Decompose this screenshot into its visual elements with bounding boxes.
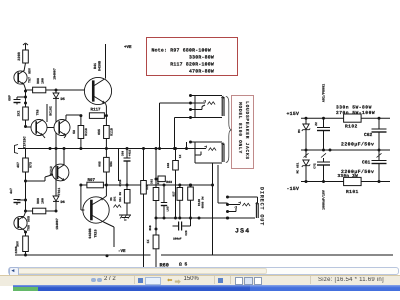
wire R91 to node	[25, 120, 27, 127]
svg-text:R117 820R-100W: R117 820R-100W	[170, 62, 214, 68]
wire jack JS3 sleeve down	[212, 163, 214, 255]
svg-text:MC: MC	[298, 129, 301, 133]
svg-text:1N4007: 1N4007	[53, 68, 57, 80]
toolbar dropdown icon	[138, 278, 143, 283]
svg-text:100uF: 100uF	[173, 238, 182, 241]
resistor R? 1K mid	[173, 161, 179, 171]
node dots R97 row	[79, 184, 82, 187]
svg-text:330n 5W-80W: 330n 5W-80W	[336, 105, 372, 111]
rail +15V	[301, 117, 344, 119]
node dot bus tap	[155, 178, 158, 181]
resistor R119	[105, 116, 107, 126]
svg-text:270n 5W-100W: 270n 5W-100W	[336, 110, 375, 116]
wire x=175.5 upper	[175, 149, 177, 161]
jack bus dots column	[189, 94, 192, 97]
wire into TR8 top	[46, 104, 48, 122]
wire R117 stubs	[104, 115, 106, 117]
wire TR10 base from node	[80, 185, 82, 210]
svg-text:2200µF/50v: 2200µF/50v	[341, 142, 374, 148]
rail -15V	[301, 181, 344, 183]
wire TR8/TR12 emitters joined	[43, 136, 45, 139]
svg-text:R102: R102	[345, 124, 358, 130]
wire x=218 vertical	[217, 165, 219, 203]
svg-text:95V: 95V	[28, 68, 32, 74]
wire +rail stub to R96	[25, 44, 27, 50]
svg-text:Z2: Z2	[315, 122, 318, 126]
svg-text:100: 100	[41, 198, 45, 204]
svg-text:0R5: 0R5	[99, 161, 102, 167]
bus corner wire A	[160, 102, 191, 104]
svg-text:D5: D5	[61, 97, 65, 102]
toolbar separator 2	[214, 276, 215, 284]
resistor R87 827	[178, 184, 181, 187]
toolbar input box	[145, 277, 161, 285]
svg-text:R99: R99	[36, 198, 40, 204]
node dot D5 tap	[55, 89, 58, 92]
svg-text:1D1: 1D1	[113, 196, 116, 201]
resistor R97	[87, 182, 104, 188]
wire TR12 collector to R117 node	[65, 115, 67, 120]
resistor R98 100	[33, 87, 46, 93]
svg-text:5W: 5W	[72, 130, 76, 134]
wire to bottom rail	[25, 252, 27, 256]
svg-text:M5: M5	[110, 197, 113, 201]
svg-text:MODEL 8100 ONLY: MODEL 8100 ONLY	[237, 102, 243, 154]
svg-text:A91/P8001: A91/P8001	[322, 84, 327, 102]
resistor R86 1K	[153, 235, 159, 249]
svg-text:C62: C62	[150, 179, 153, 184]
svg-text:4u7: 4u7	[9, 188, 13, 194]
wire D6 chain	[55, 133, 57, 149]
svg-text:D6: D6	[61, 200, 65, 205]
scrollbar thumb	[17, 268, 267, 275]
toolbar page nav icons	[91, 278, 96, 283]
svg-text:C61: C61	[362, 160, 371, 166]
svg-text:R73: R73	[29, 162, 33, 168]
svg-text:C60: C60	[122, 151, 125, 156]
wire TR10 emitter up	[104, 196, 107, 198]
wire base line y=90	[26, 89, 33, 91]
bottom rail y=255	[15, 254, 151, 256]
node dot TR11 emitter tie	[24, 180, 27, 183]
svg-text:C26: C26	[185, 230, 188, 235]
diode D6	[55, 193, 57, 196]
svg-text:330R-80W: 330R-80W	[189, 55, 214, 61]
rail mid dots	[305, 149, 308, 152]
speaker jack JS2	[194, 96, 196, 118]
svg-text:470R-80W: 470R-80W	[189, 69, 214, 75]
wires to JS4 contacts	[228, 196, 258, 198]
wire dot to TR11 emitter	[26, 180, 46, 182]
svg-text:Note: R97 680R-100W: Note: R97 680R-100W	[152, 48, 211, 54]
rail junction dots	[49, 147, 52, 150]
capacitor C26	[178, 222, 180, 231]
toolbar row	[0, 275, 400, 286]
wire left column lower	[25, 181, 27, 212]
resistor R? 0R5 left-bottom	[25, 149, 27, 159]
svg-text:JS4: JS4	[235, 228, 250, 235]
wire TR11 collector to rail	[63, 149, 65, 165]
svg-text:1000uF/16V: 1000uF/16V	[322, 190, 326, 210]
transistor TR7	[14, 71, 27, 84]
svg-text:A5B: A5B	[27, 216, 31, 222]
layout icon 2	[244, 277, 253, 286]
red note box	[146, 37, 238, 76]
rail dots +15V	[305, 117, 308, 120]
rail 218 dots	[155, 217, 158, 220]
bus stub C	[186, 142, 188, 149]
svg-text:1Dn 5W: 1Dn 5W	[119, 192, 122, 202]
wire TR7 emitter down	[24, 85, 26, 90]
resistor R91 2K2	[25, 103, 27, 107]
wire x=156 upper	[155, 149, 157, 188]
wire stub x=118	[118, 149, 120, 166]
resistor R117	[89, 113, 104, 119]
wire x=212.5 corner	[211, 184, 214, 187]
svg-text:R117: R117	[91, 108, 102, 113]
node dots R117	[79, 114, 82, 117]
svg-text:+VE: +VE	[124, 45, 132, 50]
svg-text:LOUDSPEAKER JACKS: LOUDSPEAKER JACKS	[244, 101, 250, 160]
svg-text:100: 100	[41, 78, 45, 84]
diode D5	[55, 90, 57, 93]
node dot TR8 base	[24, 125, 27, 128]
svg-text:1K: 1K	[146, 240, 150, 244]
label R11B stub	[118, 165, 120, 181]
svg-text:TR10: TR10	[94, 229, 99, 237]
node dots on left column	[24, 90, 27, 93]
size status separator	[310, 276, 311, 284]
jack JS4 wiper	[238, 202, 240, 204]
speaker jack JS3	[194, 142, 196, 163]
layout icon 3	[254, 277, 262, 286]
toolbar page label	[104, 276, 116, 282]
wire TR9 emitter to node	[105, 104, 108, 107]
capacitor to ground lower-left	[24, 199, 27, 202]
svg-text:-15V: -15V	[287, 186, 300, 192]
jack JS4 tip contact	[255, 203, 257, 218]
wire main mid rail y=148.5	[18, 148, 195, 150]
node dot bottom rail left	[24, 254, 27, 257]
svg-text:TR11: TR11	[57, 188, 61, 196]
resistor R94 0R5 lower	[105, 149, 107, 158]
wire to TR8 base	[26, 126, 32, 128]
resistor R85	[141, 181, 147, 195]
node dot R99 line	[24, 210, 27, 213]
resistor R99 100	[26, 210, 33, 212]
svg-text:X25: X25	[146, 184, 149, 190]
svg-text:B5B: B5B	[149, 225, 152, 230]
wire TR8b links	[24, 212, 26, 216]
svg-text:220R: 220R	[15, 246, 18, 253]
resistor R96 220R	[23, 50, 29, 63]
svg-text:R101: R101	[346, 189, 359, 195]
wire R99 to TR10 base	[46, 210, 56, 212]
red model box	[231, 95, 254, 169]
svg-text:TIP29C: TIP29C	[23, 136, 28, 148]
node dot lower mid	[155, 228, 158, 231]
zener ZD1	[305, 118, 307, 124]
svg-text:TR8: TR8	[27, 225, 31, 231]
svg-text:R11B: R11B	[110, 128, 114, 136]
svg-text:-VE: -VE	[118, 249, 126, 254]
svg-text:R120: R120	[198, 199, 201, 206]
wire TR10 collector to -VE	[104, 222, 115, 227]
progress bar blue	[13, 285, 400, 291]
transistor TR8b lower	[14, 216, 27, 229]
svg-text:811B: 811B	[119, 179, 122, 186]
svg-text:1N4007: 1N4007	[55, 218, 59, 230]
svg-text:BC182: BC182	[49, 106, 53, 116]
resistor R? 10n 5W	[124, 190, 130, 204]
bus corner wire B	[175, 117, 191, 119]
svg-text:TR7: TR7	[28, 77, 32, 83]
resistor R63 small	[158, 176, 165, 182]
svg-text:R63: R63	[166, 180, 172, 184]
jack JS4 dots column	[226, 196, 229, 199]
toolbar history arrows	[167, 276, 172, 284]
wire x=156 lower	[155, 218, 157, 229]
svg-text:0R5: 0R5	[97, 129, 101, 135]
resistor R118	[80, 116, 82, 126]
svg-text:R118: R118	[84, 128, 88, 136]
svg-text:DIRECT OUT: DIRECT OUT	[259, 187, 265, 226]
inductor squiggle near TR10	[114, 205, 122, 208]
wire R98 to TR9 base	[46, 89, 85, 91]
resistor R? 220R bottom	[25, 232, 27, 236]
node dot C60 row	[126, 184, 129, 187]
size status text	[318, 277, 384, 283]
transistor TR8	[31, 120, 47, 136]
svg-text:L83: L83	[167, 206, 170, 211]
capacitor C63	[161, 202, 167, 204]
toolbar zoom label	[184, 276, 199, 282]
wires dots to jack JS2	[191, 95, 223, 97]
toolbar separator 1	[134, 276, 135, 284]
svg-text:R98: R98	[36, 78, 40, 84]
toolbar zoom icon	[218, 278, 223, 283]
toolbar separator 3	[230, 276, 231, 284]
layout icon 1	[235, 277, 243, 286]
wire D5 down to node	[55, 99, 57, 123]
svg-text:36V: 36V	[16, 241, 20, 247]
wire +VE collector line	[105, 44, 107, 79]
wire long vertical x=143.5	[143, 149, 145, 181]
capacitor C60	[126, 149, 128, 159]
node dot bottom col	[24, 231, 27, 234]
capacitor C? 68P to ground	[17, 96, 26, 98]
svg-text:TR8: TR8	[36, 110, 40, 116]
ground symbol	[119, 214, 131, 216]
transistor TR12	[54, 120, 70, 136]
capacitor C?a	[323, 118, 325, 127]
resistor R101	[344, 177, 362, 185]
capacitor C?b	[321, 153, 326, 157]
resistor R120 0R22	[189, 184, 192, 187]
transistor TR11	[52, 164, 69, 181]
svg-text:24B: 24B	[167, 163, 170, 168]
svg-text:B41: B41	[93, 63, 98, 69]
node dot D6 tap	[55, 210, 58, 213]
scrollbar left arrow button	[9, 267, 19, 277]
svg-text:1K: 1K	[179, 155, 182, 159]
svg-text:9R4: 9R4	[110, 161, 113, 167]
wire R96 to TR7 collector	[24, 63, 26, 71]
capacitor C61 big	[377, 153, 382, 157]
rail y=218	[156, 217, 256, 219]
svg-text:4K7: 4K7	[16, 162, 20, 168]
wire R97 row to x164 cap	[163, 184, 166, 187]
svg-text:827: 827	[172, 191, 175, 196]
svg-text:9430B: 9430B	[88, 228, 93, 238]
svg-text:68P: 68P	[8, 95, 12, 101]
svg-text:220R: 220R	[17, 51, 22, 60]
svg-text:2K2: 2K2	[17, 111, 21, 117]
horizontal scrollbar	[8, 267, 399, 276]
svg-text:+022: +022	[129, 149, 132, 156]
resistor R102	[344, 114, 362, 122]
rail dots -15V	[305, 180, 308, 183]
progress bar right lighter	[250, 285, 400, 291]
svg-text:9430B: 9430B	[98, 61, 103, 71]
mid connector J2	[15, 145, 19, 154]
capacitor C62 big	[378, 118, 380, 129]
svg-text:0R88 3W: 0R88 3W	[201, 196, 204, 208]
transistor TR9 driver	[84, 77, 111, 104]
progress green segment	[13, 287, 38, 291]
resistor R? x156	[153, 188, 159, 201]
rail mid 0V	[301, 149, 390, 151]
transistor TR10 driver	[83, 197, 109, 223]
svg-text:MC A51: MC A51	[297, 162, 300, 173]
svg-text:C62: C62	[364, 132, 373, 138]
curly brace	[226, 97, 232, 163]
node dot bottom mid	[106, 254, 109, 257]
wire R97 row extension right	[106, 184, 212, 186]
svg-text:+15V: +15V	[287, 111, 300, 117]
zener ZD2	[305, 150, 307, 158]
node dot R120 top	[189, 184, 192, 187]
svg-text:C?2: C?2	[314, 163, 317, 169]
